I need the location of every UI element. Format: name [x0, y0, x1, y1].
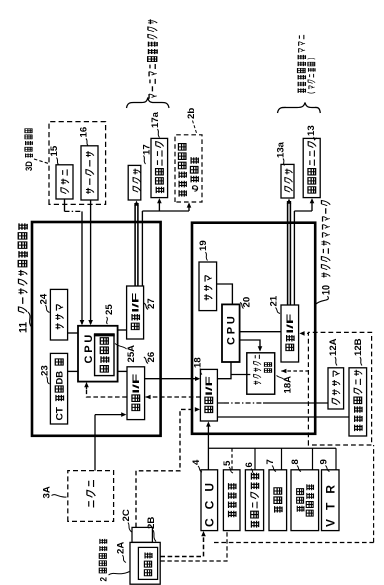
- svg-text:CPU: CPU: [83, 332, 95, 364]
- svg-text:2A: 2A: [115, 542, 126, 554]
- box monitor 17 (モニタ): [128, 165, 141, 200]
- svg-text:CCU: CCU: [203, 474, 217, 527]
- svg-text:26: 26: [146, 352, 157, 363]
- svg-text:24: 24: [38, 293, 49, 304]
- dashed wire sterile-area link to 12A/12B group: [214, 542, 374, 544]
- svg-text:6: 6: [244, 462, 255, 467]
- dashed box 3D information input unit (3D情報入力部): [49, 122, 106, 205]
- svg-text:8: 8: [290, 459, 301, 465]
- box monitor 13a (モニタ): [281, 164, 294, 198]
- svg-text:17a: 17a: [150, 111, 161, 128]
- dashed wire connector 2C to communication I/F 18: [136, 409, 196, 527]
- wire keyboard 16 to CPU 25: [90, 200, 92, 324]
- box rigid scope 2B (硬性鏡): [138, 547, 157, 579]
- box keyboard 16 (キーボード): [81, 146, 98, 200]
- dashed wire 12A/12B group to display I/F 21: [301, 332, 308, 334]
- box reference monitor 13 (参照用モニタ): [303, 138, 320, 197]
- dashed wire communication I/F 26 to CPU 25: [87, 389, 127, 397]
- wire memory 19 to CPU 20: [217, 284, 233, 304]
- leader for label 10: [315, 296, 328, 305]
- box endoscope apparatus 2 outer: [130, 542, 160, 584]
- label (ライブ画像): [307, 58, 315, 93]
- leader for label 11: [28, 312, 32, 328]
- svg-text:DB: DB: [55, 371, 66, 385]
- brace for 17/17a monitors: [127, 98, 170, 109]
- dashed wire 12A/12B group to capture circuit 18A: [281, 370, 308, 372]
- wire communication I/F 18 to capture circuit 18A: [231, 374, 250, 376]
- leader for label 2: [109, 572, 130, 576]
- stub wire electrosurgical 6: [254, 448, 256, 470]
- box display I/F 21 (表示I/F): [281, 305, 299, 362]
- svg-text:21: 21: [268, 295, 279, 306]
- svg-text:23: 23: [39, 365, 50, 376]
- box 10 system controller (システムコントローラ): [192, 223, 315, 434]
- svg-text:12A: 12A: [328, 338, 339, 356]
- dashed wire communication I/F 26 to communication I/F 18: [146, 396, 201, 398]
- wire CPU 25 to communication I/F 26: [118, 370, 127, 372]
- wire CPU 20 to communication I/F 18: [218, 362, 231, 379]
- svg-text:10: 10: [320, 285, 332, 295]
- box capture circuit 18A (キャプチャ回路): [247, 353, 275, 394]
- svg-text:2C: 2C: [121, 509, 132, 521]
- wire display I/F 21 to monitor 13a double line: [287, 201, 289, 305]
- box connector 2C: [132, 527, 152, 542]
- svg-text:18A: 18A: [282, 376, 293, 394]
- svg-text:20: 20: [241, 297, 252, 308]
- box VTR 9: [322, 470, 340, 531]
- stub wire insufflator 7: [281, 448, 283, 470]
- svg-text:I/F: I/F: [284, 313, 295, 333]
- svg-text:25: 25: [104, 304, 115, 315]
- label virtual image monitors (バーチャル画像用モニタ): [148, 19, 157, 98]
- box electrosurgical unit 6 (電気メス装置): [245, 470, 263, 531]
- stub wire light source 5 (dashed): [231, 448, 233, 470]
- svg-text:11: 11: [17, 322, 29, 333]
- svg-text:15: 15: [49, 145, 60, 156]
- box insufflator 7 (気腹器): [269, 470, 287, 531]
- wire display I/F 27 trunk to 17a and 2b: [141, 211, 143, 286]
- dashed box sensor 3A (センサ): [68, 471, 114, 522]
- dashed wire scope light guide to light source 5: [160, 531, 227, 561]
- wire memory 24 to CPU 25: [68, 332, 78, 334]
- label 10 システムコントローラ title: [320, 200, 332, 295]
- svg-text:25A: 25A: [126, 345, 137, 363]
- bus wire from CCU line down to devices: [208, 447, 336, 449]
- box communication I/F 26 (通信I/F): [127, 367, 145, 420]
- wire communication I/F 26 to communication I/F 18 solid with arrow: [145, 378, 197, 380]
- svg-text:13a: 13a: [275, 141, 286, 158]
- brace for 13a/13 monitors: [278, 103, 321, 114]
- svg-text:7: 7: [265, 459, 276, 464]
- box synthesis circuit 25A (合成回路): [95, 335, 114, 376]
- svg-text:13: 13: [306, 125, 317, 136]
- svg-text:18: 18: [192, 357, 203, 368]
- wire remote 12A to communication I/F 18 (partly dash-dot): [218, 402, 224, 404]
- wire CPU 20 to capture circuit 18A: [240, 340, 260, 351]
- wire CT DB 23 to CPU 25: [68, 370, 78, 372]
- svg-text:2b: 2b: [186, 108, 197, 119]
- svg-text:5: 5: [222, 460, 233, 466]
- leader for 3D label dashed: [34, 159, 49, 164]
- stub wire ultrasound 8: [312, 448, 314, 470]
- box CCU 4: [201, 470, 218, 531]
- box memory 19 (メモリ): [199, 262, 217, 311]
- dashed wire scope camera cable to CCU 4: [160, 535, 203, 557]
- label 3D情報入力部: [23, 129, 34, 171]
- wire mouse 15 to CPU 25 (with dash-dot jog): [64, 199, 66, 211]
- wire display I/F 21 trunk to monitor 13: [293, 211, 295, 305]
- box operator monitor 17a (術者用モニタ): [151, 138, 168, 197]
- box CT image DB unit 23 (CT画像DB部): [50, 353, 67, 424]
- box ultrasound drive power 8 (超音波駆動電源): [291, 470, 319, 531]
- wire CPU 25 to display I/F 27: [118, 329, 127, 331]
- svg-text:CPU: CPU: [226, 313, 238, 345]
- box voice input microphone 12B (音声入力マイク): [349, 368, 367, 436]
- svg-text:3D: 3D: [23, 161, 34, 171]
- wire CCU 4 to communication I/F 18: [207, 425, 209, 470]
- dashed box display in endoscope apparatus 2b (内視鏡装置内の表示器): [175, 135, 202, 202]
- svg-text:16: 16: [78, 127, 89, 138]
- svg-text:CT: CT: [55, 407, 66, 421]
- label 2 内視鏡装置 title: [98, 539, 109, 582]
- box communication I/F 18 (通信I/F): [200, 369, 217, 421]
- label 11 バーチャル画像生成部 title: [17, 223, 29, 333]
- dashed box remote control and mic group (12A/12B): [308, 332, 371, 445]
- svg-text:2: 2: [98, 577, 109, 582]
- box memory 24 (メモリ): [50, 289, 67, 340]
- box 11 virtual-image generation unit (バーチャル画像生成部): [32, 222, 161, 436]
- box display I/F 27 (表示I/F): [127, 286, 144, 339]
- svg-text:4: 4: [191, 459, 202, 465]
- svg-text:12B: 12B: [353, 338, 364, 356]
- wire display I/F 27 to monitor 17 double line: [134, 203, 136, 286]
- box mouse 15 (マウス): [56, 165, 73, 199]
- svg-text:I/F: I/F: [203, 376, 214, 396]
- box CPU 25: [78, 326, 118, 382]
- svg-text:I/F: I/F: [130, 292, 141, 312]
- svg-text:19: 19: [198, 240, 209, 251]
- svg-text:VTR: VTR: [323, 476, 337, 527]
- svg-text:3A: 3A: [41, 486, 52, 498]
- wire microphone 12B to communication I/F 18: [218, 416, 349, 418]
- box light source 5 (光源装置): [223, 470, 240, 531]
- svg-text:9: 9: [318, 459, 329, 464]
- wire sensor 3A to communication I/F 26: [94, 415, 96, 471]
- label endoscope live image monitors (内視鏡画像用モニタ): [298, 35, 306, 93]
- svg-text:27: 27: [146, 298, 157, 309]
- svg-text:I/F: I/F: [130, 373, 141, 393]
- box CPU 20: [222, 304, 240, 362]
- stub wire VTR 9: [335, 448, 337, 470]
- box remote control 12A (リモコン): [328, 368, 344, 409]
- wire CPU 20 to display I/F 21: [240, 331, 281, 333]
